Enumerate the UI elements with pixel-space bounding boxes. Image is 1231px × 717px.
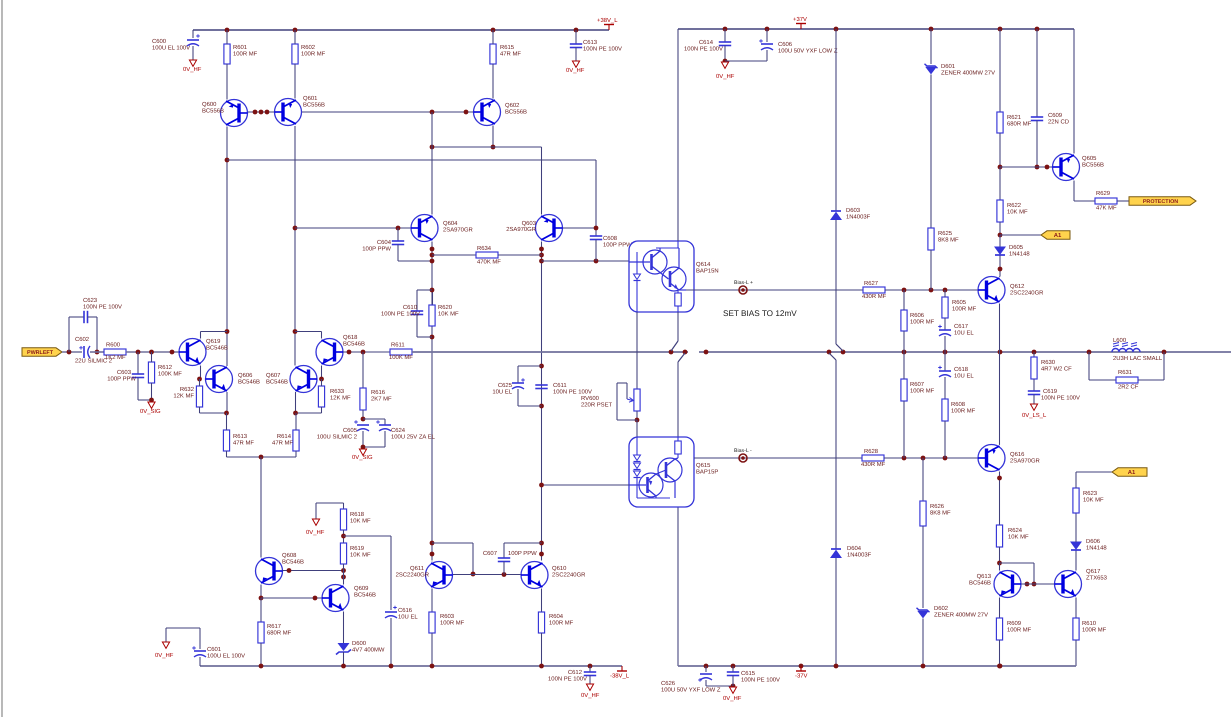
svg-text:0V_HF: 0V_HF bbox=[716, 73, 735, 80]
svg-text:2K7 MF: 2K7 MF bbox=[371, 395, 392, 402]
svg-text:Q601: Q601 bbox=[303, 95, 317, 102]
svg-text:C603: C603 bbox=[117, 369, 132, 376]
svg-text:2SC2240GR: 2SC2240GR bbox=[396, 571, 429, 578]
svg-text:Q608: Q608 bbox=[282, 552, 297, 559]
svg-text:BC546B: BC546B bbox=[206, 344, 228, 351]
svg-text:C602: C602 bbox=[75, 336, 89, 343]
svg-text:R632: R632 bbox=[180, 386, 194, 393]
svg-text:0V_SIG: 0V_SIG bbox=[140, 408, 161, 415]
svg-text:RV600: RV600 bbox=[581, 395, 600, 402]
svg-text:R609: R609 bbox=[1007, 620, 1021, 627]
svg-text:Q600: Q600 bbox=[202, 101, 217, 108]
svg-text:0V_HF: 0V_HF bbox=[306, 529, 325, 536]
svg-text:R626: R626 bbox=[930, 503, 945, 510]
svg-text:100R MF: 100R MF bbox=[952, 305, 977, 312]
svg-text:Bias-L -: Bias-L - bbox=[734, 448, 752, 454]
svg-text:100R MF: 100R MF bbox=[1007, 626, 1032, 633]
svg-text:D605: D605 bbox=[1009, 244, 1024, 251]
svg-text:C616: C616 bbox=[398, 607, 413, 614]
svg-text:R624: R624 bbox=[1008, 527, 1023, 534]
svg-text:2SC2240GR: 2SC2240GR bbox=[552, 571, 585, 578]
svg-text:100N PE 100V: 100N PE 100V bbox=[553, 388, 592, 395]
svg-text:680R MF: 680R MF bbox=[267, 629, 292, 636]
svg-text:C626: C626 bbox=[661, 680, 676, 687]
svg-text:2R2 CF: 2R2 CF bbox=[1118, 384, 1139, 391]
svg-text:47K MF: 47K MF bbox=[1096, 205, 1117, 212]
svg-text:2SA970GR: 2SA970GR bbox=[443, 226, 473, 233]
svg-text:10K MF: 10K MF bbox=[350, 551, 371, 558]
svg-text:Q612: Q612 bbox=[1010, 283, 1024, 290]
svg-text:R623: R623 bbox=[1083, 490, 1098, 497]
svg-text:10U EL: 10U EL bbox=[492, 388, 512, 395]
svg-text:R601: R601 bbox=[233, 44, 247, 51]
svg-text:+37V: +37V bbox=[793, 16, 807, 23]
svg-text:R613: R613 bbox=[233, 433, 248, 440]
svg-text:Q604: Q604 bbox=[443, 220, 458, 227]
svg-text:100R MF: 100R MF bbox=[910, 318, 935, 325]
svg-text:BAP15N: BAP15N bbox=[696, 267, 719, 274]
svg-text:BC556B: BC556B bbox=[505, 108, 527, 115]
svg-text:22N CD: 22N CD bbox=[1048, 118, 1069, 125]
svg-text:100K MF: 100K MF bbox=[389, 354, 413, 361]
svg-text:2SC2240GR: 2SC2240GR bbox=[1010, 289, 1043, 296]
svg-text:R612: R612 bbox=[158, 364, 172, 371]
svg-text:100U SILMIC 2: 100U SILMIC 2 bbox=[317, 433, 357, 440]
svg-text:C625: C625 bbox=[498, 382, 513, 389]
svg-text:100N PE 100V: 100N PE 100V bbox=[83, 303, 122, 310]
svg-text:C623: C623 bbox=[83, 297, 98, 304]
svg-text:0V_LS_L: 0V_LS_L bbox=[1022, 412, 1047, 419]
svg-text:BC556B: BC556B bbox=[303, 101, 325, 108]
svg-text:BC546B: BC546B bbox=[282, 558, 304, 565]
svg-text:Q613: Q613 bbox=[977, 573, 992, 580]
svg-text:100R MF: 100R MF bbox=[440, 619, 465, 626]
svg-text:1N4148: 1N4148 bbox=[1009, 250, 1030, 257]
svg-text:Bias-L +: Bias-L + bbox=[734, 280, 753, 286]
svg-text:47R MF: 47R MF bbox=[500, 50, 521, 57]
svg-text:Q609: Q609 bbox=[354, 585, 368, 592]
svg-text:BC546B: BC546B bbox=[343, 340, 365, 347]
svg-text:100N PE 100V: 100N PE 100V bbox=[684, 45, 723, 52]
svg-text:10K MF: 10K MF bbox=[350, 517, 371, 524]
svg-text:Q603: Q603 bbox=[522, 220, 537, 227]
svg-text:ZENER 400MW 27V: ZENER 400MW 27V bbox=[934, 611, 988, 618]
svg-text:-37V: -37V bbox=[795, 673, 808, 680]
svg-text:47R MF: 47R MF bbox=[272, 439, 293, 446]
svg-text:R615: R615 bbox=[500, 44, 515, 51]
svg-text:100N PE 100V: 100N PE 100V bbox=[548, 675, 587, 682]
svg-text:100N PE 100V: 100N PE 100V bbox=[1041, 394, 1080, 401]
svg-text:R604: R604 bbox=[549, 613, 564, 620]
svg-text:1N4148: 1N4148 bbox=[1086, 544, 1107, 551]
svg-text:100U 50V YXF LOW Z: 100U 50V YXF LOW Z bbox=[661, 686, 721, 693]
svg-text:C619: C619 bbox=[1043, 388, 1057, 395]
svg-text:Q616: Q616 bbox=[1010, 451, 1025, 458]
svg-text:C612: C612 bbox=[568, 669, 582, 676]
svg-text:4V7 400MW: 4V7 400MW bbox=[352, 646, 385, 653]
svg-text:430R MF: 430R MF bbox=[862, 293, 887, 300]
svg-text:R619: R619 bbox=[350, 545, 364, 552]
svg-text:10K MF: 10K MF bbox=[1007, 208, 1028, 215]
svg-text:R600: R600 bbox=[106, 342, 121, 349]
svg-text:D606: D606 bbox=[1086, 538, 1101, 545]
svg-text:10U EL: 10U EL bbox=[398, 613, 418, 620]
svg-text:R607: R607 bbox=[910, 381, 924, 388]
svg-text:D600: D600 bbox=[352, 640, 367, 647]
svg-text:2SA970GR: 2SA970GR bbox=[1010, 457, 1040, 464]
svg-text:R633: R633 bbox=[330, 388, 345, 395]
svg-text:R614: R614 bbox=[277, 433, 292, 440]
svg-text:Q605: Q605 bbox=[1082, 155, 1097, 162]
svg-text:C610: C610 bbox=[403, 304, 418, 311]
svg-text:R628: R628 bbox=[864, 448, 879, 455]
svg-text:100K MF: 100K MF bbox=[158, 370, 182, 377]
svg-text:Q606: Q606 bbox=[238, 372, 253, 379]
svg-text:Q617: Q617 bbox=[1086, 568, 1100, 575]
svg-text:-38V_L: -38V_L bbox=[610, 673, 630, 680]
svg-text:C615: C615 bbox=[741, 670, 756, 677]
svg-text:D603: D603 bbox=[846, 207, 861, 214]
svg-text:R608: R608 bbox=[951, 401, 966, 408]
svg-text:100N PE 100V: 100N PE 100V bbox=[381, 310, 420, 317]
svg-text:C601: C601 bbox=[207, 646, 221, 653]
svg-text:BC546B: BC546B bbox=[969, 579, 991, 586]
svg-text:Q611: Q611 bbox=[410, 565, 424, 572]
svg-text:0V_HF: 0V_HF bbox=[566, 67, 585, 74]
svg-text:470K MF: 470K MF bbox=[477, 259, 501, 266]
svg-text:Q602: Q602 bbox=[505, 102, 519, 109]
svg-text:R631: R631 bbox=[1118, 369, 1132, 376]
svg-text:R602: R602 bbox=[301, 44, 315, 51]
svg-text:R625: R625 bbox=[938, 230, 953, 237]
svg-text:R622: R622 bbox=[1007, 202, 1021, 209]
svg-text:4R7 W2 CF: 4R7 W2 CF bbox=[1041, 365, 1072, 372]
svg-text:C605: C605 bbox=[343, 427, 358, 434]
svg-text:C600: C600 bbox=[152, 38, 167, 45]
svg-text:D601: D601 bbox=[941, 63, 955, 70]
svg-text:100P PPW: 100P PPW bbox=[362, 245, 391, 252]
svg-text:R621: R621 bbox=[1007, 114, 1021, 121]
svg-text:100R MF: 100R MF bbox=[301, 50, 326, 57]
svg-text:2U3H LAC SMALL: 2U3H LAC SMALL bbox=[1113, 355, 1163, 362]
svg-text:10K MF: 10K MF bbox=[1083, 496, 1104, 503]
svg-text:BC556B: BC556B bbox=[202, 107, 224, 114]
svg-text:100U 25V ZA EL: 100U 25V ZA EL bbox=[391, 433, 436, 440]
svg-text:C618: C618 bbox=[954, 366, 969, 373]
svg-text:BC546B: BC546B bbox=[238, 378, 260, 385]
svg-text:R634: R634 bbox=[477, 245, 492, 252]
svg-text:PROTECTION: PROTECTION bbox=[1143, 199, 1178, 205]
svg-text:100U 50V YXF LOW Z: 100U 50V YXF LOW Z bbox=[778, 47, 838, 54]
svg-text:D604: D604 bbox=[847, 545, 862, 552]
svg-text:1N4003F: 1N4003F bbox=[846, 213, 871, 220]
svg-text:Q614: Q614 bbox=[696, 261, 711, 268]
svg-text:0V_HF: 0V_HF bbox=[581, 692, 600, 699]
svg-text:Q615: Q615 bbox=[696, 462, 711, 469]
svg-text:100R MF: 100R MF bbox=[549, 619, 574, 626]
svg-text:A1: A1 bbox=[1054, 232, 1062, 239]
svg-text:1K2 MF: 1K2 MF bbox=[105, 354, 126, 361]
svg-text:R620: R620 bbox=[438, 304, 453, 311]
svg-text:R603: R603 bbox=[440, 613, 455, 620]
svg-text:Q607: Q607 bbox=[266, 372, 280, 379]
svg-text:0V_HF: 0V_HF bbox=[155, 652, 174, 659]
svg-text:R627: R627 bbox=[864, 280, 878, 287]
svg-text:100N PE 100V: 100N PE 100V bbox=[583, 45, 622, 52]
svg-text:R606: R606 bbox=[910, 312, 925, 319]
svg-text:BAP15P: BAP15P bbox=[696, 468, 718, 475]
svg-text:Q610: Q610 bbox=[552, 565, 567, 572]
svg-text:R618: R618 bbox=[350, 511, 365, 518]
svg-text:100P PPW: 100P PPW bbox=[508, 550, 537, 557]
svg-text:R605: R605 bbox=[952, 299, 967, 306]
svg-text:8K8 MF: 8K8 MF bbox=[938, 236, 959, 243]
svg-text:SET BIAS TO 12mV: SET BIAS TO 12mV bbox=[723, 309, 797, 318]
svg-text:100N PE 100V: 100N PE 100V bbox=[741, 676, 780, 683]
svg-text:C607: C607 bbox=[483, 550, 497, 557]
svg-text:R610: R610 bbox=[1082, 620, 1097, 627]
svg-text:100R MF: 100R MF bbox=[910, 387, 935, 394]
svg-text:10K MF: 10K MF bbox=[1008, 533, 1029, 540]
svg-text:C604: C604 bbox=[377, 239, 392, 246]
svg-text:430R MF: 430R MF bbox=[861, 461, 886, 468]
svg-text:R629: R629 bbox=[1096, 190, 1110, 197]
svg-text:BC546B: BC546B bbox=[354, 591, 376, 598]
svg-text:10U EL: 10U EL bbox=[954, 329, 974, 336]
svg-text:Q619: Q619 bbox=[206, 338, 220, 345]
svg-text:1N4003F: 1N4003F bbox=[847, 551, 872, 558]
svg-text:Q618: Q618 bbox=[343, 334, 358, 341]
svg-text:BC546B: BC546B bbox=[266, 378, 288, 385]
svg-text:0V_SIG: 0V_SIG bbox=[352, 454, 373, 461]
svg-text:C609: C609 bbox=[1048, 112, 1062, 119]
svg-text:47R MF: 47R MF bbox=[233, 439, 254, 446]
svg-text:L600: L600 bbox=[1113, 337, 1127, 344]
svg-text:2SA970GR: 2SA970GR bbox=[506, 226, 536, 233]
svg-text:12K MF: 12K MF bbox=[330, 394, 351, 401]
svg-text:R617: R617 bbox=[267, 623, 281, 630]
svg-text:C613: C613 bbox=[583, 39, 598, 46]
svg-text:+38V_L: +38V_L bbox=[597, 17, 618, 24]
svg-text:100U EL 100V: 100U EL 100V bbox=[152, 44, 190, 51]
svg-text:C614: C614 bbox=[699, 39, 714, 46]
svg-text:C617: C617 bbox=[954, 323, 968, 330]
svg-text:10U EL: 10U EL bbox=[954, 372, 974, 379]
svg-text:10K MF: 10K MF bbox=[438, 310, 459, 317]
svg-text:A1: A1 bbox=[1128, 469, 1136, 476]
svg-text:8K8 MF: 8K8 MF bbox=[930, 509, 951, 516]
svg-text:100R MF: 100R MF bbox=[951, 407, 976, 414]
svg-text:0V_HF: 0V_HF bbox=[723, 695, 742, 702]
svg-text:100R MF: 100R MF bbox=[1082, 626, 1107, 633]
svg-text:ZENER 400MW 27V: ZENER 400MW 27V bbox=[941, 69, 995, 76]
svg-text:100U EL 100V: 100U EL 100V bbox=[207, 652, 245, 659]
svg-text:100P PPW: 100P PPW bbox=[603, 241, 632, 248]
svg-text:0V_HF: 0V_HF bbox=[183, 66, 202, 73]
svg-text:C624: C624 bbox=[391, 427, 406, 434]
svg-text:680R MF: 680R MF bbox=[1007, 120, 1032, 127]
svg-text:ZTX653: ZTX653 bbox=[1086, 574, 1108, 581]
svg-text:PWRLEFT: PWRLEFT bbox=[27, 350, 54, 356]
svg-text:220R PSET: 220R PSET bbox=[581, 401, 613, 408]
svg-text:R611: R611 bbox=[391, 342, 405, 349]
svg-text:100R MF: 100R MF bbox=[233, 50, 258, 57]
svg-text:C606: C606 bbox=[778, 41, 793, 48]
svg-text:C611: C611 bbox=[553, 382, 567, 389]
svg-text:BC556B: BC556B bbox=[1082, 161, 1104, 168]
svg-text:12K MF: 12K MF bbox=[173, 392, 194, 399]
svg-text:R630: R630 bbox=[1041, 359, 1056, 366]
svg-text:R616: R616 bbox=[371, 389, 386, 396]
svg-text:C608: C608 bbox=[603, 235, 618, 242]
svg-text:D602: D602 bbox=[934, 605, 948, 612]
svg-text:100P PPW: 100P PPW bbox=[107, 375, 136, 382]
